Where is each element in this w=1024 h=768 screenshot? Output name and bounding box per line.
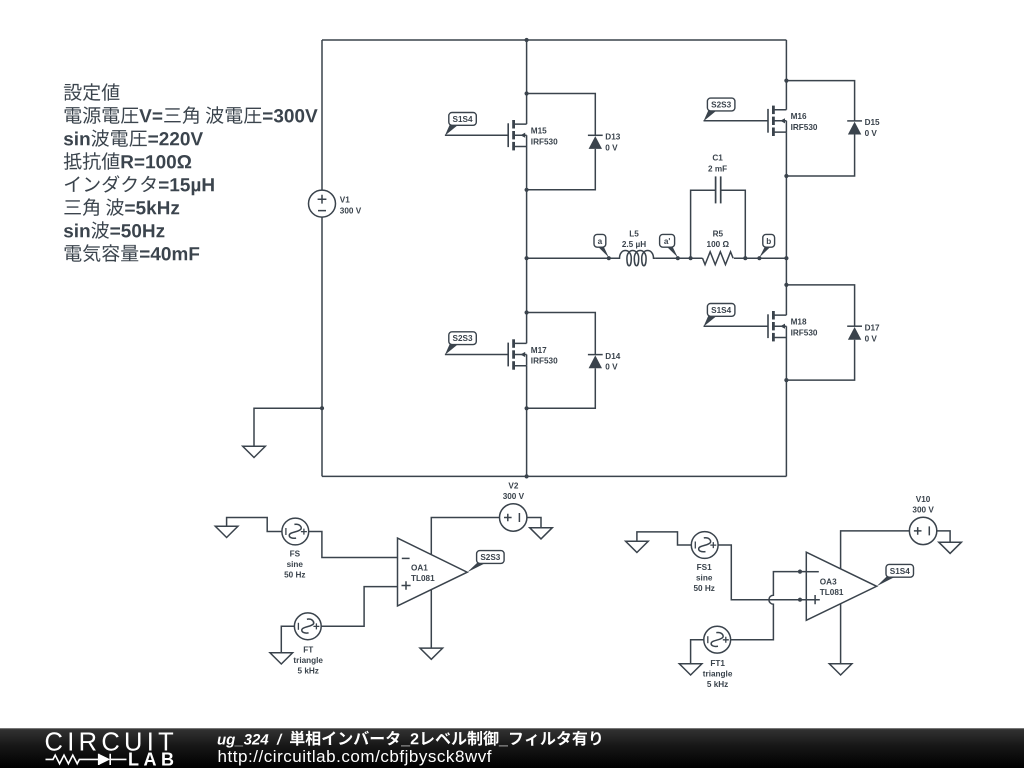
wire to D17 cathode xyxy=(786,285,854,326)
svg-text:C1: C1 xyxy=(712,154,723,163)
banner title text xyxy=(218,731,601,748)
wire FT1 to ground xyxy=(691,640,704,664)
svg-text:0 V: 0 V xyxy=(605,363,618,372)
wire to D13 cathode xyxy=(527,94,596,136)
svg-text:triangle: triangle xyxy=(293,656,323,665)
junction bottom rail / left bridge xyxy=(525,474,529,478)
junction D13 top xyxy=(525,91,529,95)
svg-text:V2: V2 xyxy=(508,482,518,491)
svg-text:D14: D14 xyxy=(605,352,620,361)
wire left rail upper xyxy=(321,40,323,190)
wire from D14 anode xyxy=(527,368,596,408)
svg-text:0 V: 0 V xyxy=(605,143,618,152)
wire V10 to ground xyxy=(937,531,950,542)
sine source FS1 xyxy=(691,532,718,559)
svg-text:M16: M16 xyxy=(791,112,807,121)
ground OA1 xyxy=(420,648,443,659)
svg-text:0 V: 0 V xyxy=(865,334,878,343)
junction left bridge / output xyxy=(525,256,529,260)
svg-text:IRF530: IRF530 xyxy=(791,328,818,337)
wire to ground xyxy=(254,408,322,446)
svg-text:FS: FS xyxy=(290,550,301,559)
wire left rail lower xyxy=(321,217,323,476)
sine source FS xyxy=(282,518,309,545)
op-amp OA1 xyxy=(398,538,468,606)
svg-text:S2S3: S2S3 xyxy=(480,553,500,562)
svg-text:S2S3: S2S3 xyxy=(711,101,731,110)
ground FT1 xyxy=(679,664,702,675)
junction right bridge / output xyxy=(784,256,788,260)
ground xyxy=(243,446,266,457)
wire OA1 V+ supply xyxy=(431,518,499,555)
ground V2 xyxy=(530,528,553,539)
svg-text:M17: M17 xyxy=(531,346,547,355)
junction D14 top xyxy=(525,310,529,314)
junction D15 bottom xyxy=(784,174,788,178)
net flag S2S3 (OA1 output) xyxy=(467,551,504,573)
net flag S1S4 (gate M18) xyxy=(704,304,735,327)
wire FS to ground xyxy=(227,518,282,532)
wire right bridge lower xyxy=(785,338,787,477)
svg-text:FT: FT xyxy=(303,646,313,655)
wire from D17 anode xyxy=(786,340,854,380)
ground V10 xyxy=(939,542,962,553)
voltage source V10 xyxy=(909,517,936,544)
svg-text:S1S4: S1S4 xyxy=(453,115,473,124)
svg-text:TL081: TL081 xyxy=(820,588,844,597)
svg-text:S2S3: S2S3 xyxy=(453,334,473,343)
svg-text:FS1: FS1 xyxy=(697,563,712,572)
junction OA3 non-inverting input xyxy=(798,598,802,602)
wire FT to ground xyxy=(281,626,294,653)
wire bottom rail xyxy=(322,475,786,477)
wire gate M18 xyxy=(704,325,769,327)
svg-text:100 Ω: 100 Ω xyxy=(707,240,730,249)
wire FS1 to OA3 non-inverting input xyxy=(718,545,806,600)
wire to D14 cathode xyxy=(527,313,596,355)
wire FT to OA1 non-inverting input xyxy=(321,587,397,627)
svg-text:V1: V1 xyxy=(340,195,350,204)
triangle source FT1 xyxy=(704,626,731,653)
CircuitLab logo wordmark xyxy=(45,729,179,768)
wire FT1 to OA3 inverting input (hops over FS1 wire) xyxy=(731,572,807,640)
svg-text:50 Hz: 50 Hz xyxy=(694,584,715,593)
svg-text:sine: sine xyxy=(696,573,713,582)
svg-text:M18: M18 xyxy=(791,318,807,327)
wire gate M15 xyxy=(445,134,508,136)
svg-text:FT1: FT1 xyxy=(710,659,725,668)
ground FS xyxy=(215,526,238,537)
ground FS1 xyxy=(626,541,649,552)
wire to D15 cathode xyxy=(786,81,854,121)
voltage source V1 xyxy=(309,190,336,217)
net flag S2S3 (gate M16) xyxy=(704,98,735,121)
wire left bridge lower xyxy=(526,366,528,477)
svg-text:S1S4: S1S4 xyxy=(711,306,731,315)
wire from D15 anode xyxy=(786,135,854,177)
node flag a' xyxy=(660,234,678,257)
svg-text:sine: sine xyxy=(287,560,304,569)
junction D15 top xyxy=(784,79,788,83)
net flag S1S4 (OA3 output) xyxy=(877,564,914,586)
svg-text:0 V: 0 V xyxy=(865,129,878,138)
wire FS1 to ground xyxy=(637,532,691,545)
wire OA3 V+ supply xyxy=(841,531,910,569)
capacitor C1 xyxy=(716,176,721,203)
junction C1 right xyxy=(743,256,747,260)
junction OA3 inverting input xyxy=(798,570,802,574)
node flag a xyxy=(594,234,609,257)
wire OA1 V- supply xyxy=(430,590,432,649)
transistor M18 xyxy=(768,311,786,341)
transistor M17 xyxy=(508,339,526,369)
junction ground tap xyxy=(320,406,324,410)
wire node b xyxy=(734,257,787,259)
resistor R5 xyxy=(703,252,734,265)
svg-text:IRF530: IRF530 xyxy=(791,123,818,132)
svg-text:OA1: OA1 xyxy=(411,564,428,573)
wire gate M17 xyxy=(445,354,508,356)
svg-text:V10: V10 xyxy=(916,495,931,504)
wire FS to OA1 inverting input xyxy=(309,532,398,558)
wire left bridge middle xyxy=(526,147,528,344)
voltage source V2 xyxy=(500,504,527,531)
op-amp OA3 xyxy=(806,552,876,620)
wire gate M16 xyxy=(704,120,769,122)
node flag b xyxy=(759,234,774,257)
wire right bridge middle xyxy=(785,132,787,315)
svg-text:50 Hz: 50 Hz xyxy=(284,571,305,580)
svg-text:M15: M15 xyxy=(531,127,547,136)
net flag S2S3 (gate M17) xyxy=(445,332,476,355)
net flag S1S4 (gate M15) xyxy=(445,113,476,136)
svg-text:D17: D17 xyxy=(865,324,880,333)
junction D14 bottom xyxy=(525,406,529,410)
triangle source FT xyxy=(294,613,321,640)
svg-text:http://circuitlab.com/cbfjbysc: http://circuitlab.com/cbfjbysck8wvf xyxy=(218,747,492,766)
svg-text:2.5 µH: 2.5 µH xyxy=(622,240,646,249)
ground OA3 xyxy=(829,664,852,675)
svg-text:5 kHz: 5 kHz xyxy=(298,667,319,676)
svg-text:D15: D15 xyxy=(865,118,880,127)
ground FT xyxy=(270,653,293,664)
junction D17 bottom xyxy=(784,378,788,382)
annotation text block (settings, Japanese) xyxy=(64,83,318,262)
junction D17 top xyxy=(784,283,788,287)
wire node a-prime xyxy=(655,257,702,259)
svg-text:a': a' xyxy=(664,237,671,246)
svg-text:300 V: 300 V xyxy=(912,506,934,515)
svg-text:TL081: TL081 xyxy=(411,574,435,583)
svg-text:S1S4: S1S4 xyxy=(890,567,910,576)
wire from D13 anode xyxy=(527,149,596,190)
svg-text:IRF530: IRF530 xyxy=(531,137,558,146)
svg-text:b: b xyxy=(766,237,771,246)
svg-text:300 V: 300 V xyxy=(503,492,525,501)
junction node b xyxy=(757,256,761,260)
svg-text:IRF530: IRF530 xyxy=(531,357,558,366)
wire V2 to ground xyxy=(527,518,541,528)
svg-text:300 V: 300 V xyxy=(340,206,362,215)
junction node a xyxy=(607,256,611,260)
transistor M15 xyxy=(508,120,526,150)
svg-text:a: a xyxy=(598,237,603,246)
svg-text:2 mF: 2 mF xyxy=(708,164,727,173)
bottom banner bar xyxy=(0,729,1024,768)
svg-text:L5: L5 xyxy=(629,230,639,239)
diode D15 xyxy=(847,121,862,135)
junction top rail / left bridge xyxy=(525,38,529,42)
diode D13 xyxy=(588,135,603,149)
diode D17 xyxy=(847,326,862,340)
wire C1 right xyxy=(721,190,746,258)
wire left bridge upper xyxy=(526,40,528,124)
CircuitLab logo resistor-diode glyph xyxy=(46,754,127,765)
junction C1 left xyxy=(689,256,693,260)
wire top rail xyxy=(322,39,786,41)
transistor M16 xyxy=(768,106,786,136)
svg-text:OA3: OA3 xyxy=(820,578,837,587)
inductor L5 xyxy=(618,251,655,266)
svg-text:R5: R5 xyxy=(713,230,724,239)
wire C1 left xyxy=(691,190,716,258)
wire right bridge upper xyxy=(785,40,787,110)
svg-text:D13: D13 xyxy=(605,133,620,142)
svg-text:LAB: LAB xyxy=(128,749,179,768)
junction D13 bottom xyxy=(525,188,529,192)
diode D14 xyxy=(588,355,603,369)
svg-text:triangle: triangle xyxy=(703,670,733,679)
wire OA3 V- supply xyxy=(840,604,842,664)
wire output node a xyxy=(527,257,618,259)
svg-text:5 kHz: 5 kHz xyxy=(707,680,728,689)
junction node a' xyxy=(676,256,680,260)
